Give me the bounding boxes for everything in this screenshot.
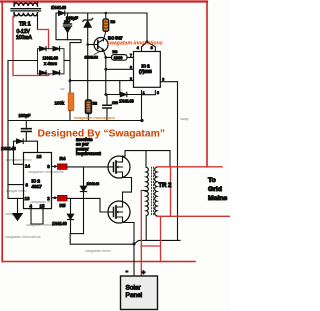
svg-text:1000: 1000 bbox=[114, 55, 123, 60]
diode bridge D-top-left bbox=[40, 47, 47, 51]
ground bbox=[17, 198, 19, 213]
potentiometer preset bbox=[85, 100, 92, 114]
wire red solar plus run bbox=[141, 245, 160, 247]
svg-text:6: 6 bbox=[130, 66, 132, 70]
svg-text:1N4148: 1N4148 bbox=[85, 55, 98, 59]
svg-text:100µF: 100µF bbox=[19, 113, 31, 118]
svg-text:swagatam: swagatam bbox=[5, 212, 21, 216]
svg-text:R3: R3 bbox=[113, 50, 118, 54]
wire 4017 pin8 to rail bbox=[8, 184, 24, 186]
wire red link verticals bbox=[170, 167, 172, 217]
wire TR2 primary bottom to bus bbox=[145, 217, 147, 241]
wire 555 bottom stub 5 bbox=[142, 90, 156, 94]
wire 100k bottom bbox=[69, 111, 71, 121]
node pin2 junction bbox=[54, 197, 57, 200]
wire Q1 collector bbox=[103, 31, 106, 41]
diode 1N4148 gate1 bbox=[83, 167, 85, 234]
wire grid-mains red tap right bbox=[206, 2, 208, 167]
IC2 4017 bbox=[24, 153, 52, 209]
IC2 7555 bbox=[134, 52, 161, 88]
svg-text:swagatam innovations: swagatam innovations bbox=[28, 170, 64, 174]
wire TR2 winding top drop bbox=[145, 151, 147, 167]
capacitor 103 bbox=[103, 95, 111, 121]
diode bridge D-bottom-left bbox=[40, 71, 47, 75]
svg-text:1N4148: 1N4148 bbox=[119, 99, 134, 104]
svg-text:R4: R4 bbox=[60, 156, 66, 161]
svg-text:16: 16 bbox=[37, 154, 42, 159]
resistor 100k bbox=[68, 93, 74, 111]
svg-text:3: 3 bbox=[162, 78, 164, 82]
svg-text:sw: sw bbox=[60, 87, 65, 91]
svg-text:14: 14 bbox=[25, 163, 30, 168]
wire ground bus y120 bbox=[8, 120, 142, 122]
wire R6 top bbox=[105, 13, 107, 19]
svg-text:Mains: Mains bbox=[208, 195, 227, 202]
wire vcc split pins 4 8 bbox=[142, 42, 156, 52]
node base junction bbox=[86, 43, 89, 46]
wire red TR2 secondary bottom to grid bbox=[157, 215, 230, 217]
wire 555 vcc from rail bbox=[146, 13, 148, 42]
wire red center tap to solar plus bbox=[140, 191, 142, 277]
wire emitter node to R3 to 555 pin7 bbox=[106, 56, 134, 58]
wire pot bottom bbox=[87, 114, 89, 121]
wire M2 source down to solar minus bbox=[123, 223, 135, 277]
transformer TR2 bbox=[146, 167, 157, 216]
capacitor 100uF top bbox=[64, 13, 72, 40]
wire red TR1 right to bridge top bbox=[38, 30, 49, 49]
svg-text:1N4148: 1N4148 bbox=[87, 182, 100, 186]
node solar minus crossing bbox=[133, 243, 136, 246]
svg-text:Grid: Grid bbox=[208, 186, 222, 193]
node timing junction bbox=[104, 93, 107, 96]
svg-text:swagatam innovations: swagatam innovations bbox=[5, 235, 41, 239]
wire 4017 pin13 to rail bbox=[8, 197, 24, 199]
svg-text:TR 2: TR 2 bbox=[159, 183, 173, 189]
svg-text:R6: R6 bbox=[111, 20, 116, 24]
node supply-555 junction bbox=[69, 79, 72, 82]
diode 1N4148 series top bbox=[59, 11, 65, 15]
diode bridge D-bottom-right bbox=[53, 71, 60, 75]
wire bridge right node bbox=[64, 60, 70, 62]
transistor Q1 BC547 bbox=[94, 38, 108, 52]
svg-text:4017: 4017 bbox=[32, 184, 43, 189]
node emitter bbox=[104, 56, 107, 59]
svg-text:IC 2: IC 2 bbox=[142, 64, 151, 69]
wire M1 drain up to TR2 top bbox=[123, 151, 171, 167]
diode bridge D-top-right bbox=[53, 47, 60, 51]
wire pin2 stub down to diode anode bbox=[119, 81, 121, 95]
wire 555 pin3 out right and down bbox=[160, 82, 177, 241]
wire zener chain down through pot bbox=[87, 45, 89, 101]
wire grid-mains red frame top bbox=[0, 0, 207, 2]
wire Q1 emitter to node bbox=[103, 50, 106, 58]
svg-text:+: + bbox=[142, 270, 146, 277]
diode bridge 1N4148 x 4nos box bbox=[38, 49, 65, 74]
wire 4017 pin2 out bbox=[52, 197, 58, 199]
svg-text:1: 1 bbox=[143, 91, 145, 95]
node pin3 junction bbox=[54, 165, 57, 168]
wire R4 to M1 gate bbox=[67, 166, 108, 168]
wire top rail dogleg to supply bbox=[56, 13, 81, 61]
svg-text:(7)555: (7)555 bbox=[139, 69, 152, 74]
svg-text:-: - bbox=[126, 267, 129, 276]
wire diode line to 555 bottom bbox=[106, 94, 142, 96]
svg-text:swagatam innovations: swagatam innovations bbox=[74, 116, 115, 120]
wire R5 to M2 gate bbox=[67, 198, 108, 212]
svg-text:R5: R5 bbox=[60, 203, 66, 208]
watermark texts faint bbox=[5, 87, 188, 253]
wire node down bbox=[105, 57, 107, 94]
wire Q1 base bbox=[88, 44, 98, 46]
svg-text:15: 15 bbox=[40, 203, 45, 208]
wire diode join U bbox=[71, 233, 84, 235]
svg-text:swagatam innov: swagatam innov bbox=[85, 249, 111, 253]
svg-text:swag: swag bbox=[180, 117, 188, 121]
wire bridge left node to ground rail bbox=[8, 60, 38, 62]
node bus right bbox=[140, 119, 143, 122]
wire red TR2 secondary top to grid bbox=[157, 166, 222, 168]
svg-text:1N4148: 1N4148 bbox=[51, 5, 67, 10]
svg-text:Solar: Solar bbox=[126, 285, 142, 292]
node 555 vcc bbox=[146, 40, 149, 43]
mosfet M2 bbox=[108, 201, 130, 223]
diode 1N4148 supply to 4017 bbox=[14, 141, 38, 152]
svg-text:100k: 100k bbox=[55, 100, 65, 105]
svg-text:IC 2: IC 2 bbox=[32, 178, 41, 183]
svg-text:swagatam innovations: swagatam innovations bbox=[26, 223, 62, 227]
wire 4017 pin3 out bbox=[52, 165, 58, 167]
mosfet M1 bbox=[108, 156, 130, 178]
wire 555 bottom stub down bbox=[141, 90, 143, 120]
svg-text:To: To bbox=[208, 177, 216, 184]
diode 1N4148 gate2 bbox=[70, 198, 72, 233]
svg-text:25V: 25V bbox=[64, 20, 71, 24]
svg-text:Designed By “Swagatam”: Designed By “Swagatam” bbox=[38, 129, 166, 140]
solar panel bbox=[121, 276, 158, 310]
diode 1N4148 mid bbox=[120, 92, 127, 96]
wire TR2 center tap bbox=[141, 190, 146, 192]
svg-text:103: 103 bbox=[112, 101, 118, 105]
node R6 rail bbox=[105, 12, 108, 15]
wire grid-mains red frame left bbox=[1, 2, 3, 262]
svg-text:2: 2 bbox=[130, 77, 132, 81]
resistor 1000 R3 bbox=[112, 55, 128, 61]
resistor R6 bbox=[103, 19, 109, 31]
wire TR1 left lead red to bridge bottom bbox=[13, 17, 49, 76]
wire grid-mains red frame bottom bbox=[2, 261, 195, 263]
wire +12 top rail bbox=[56, 12, 147, 14]
wire supply down to junction bbox=[69, 61, 71, 94]
svg-text:R2: R2 bbox=[93, 102, 97, 106]
wire diode bus down and right to 555 line bbox=[70, 234, 180, 245]
wire pin6 line bbox=[106, 68, 134, 70]
svg-text:swagatam innov: swagatam innov bbox=[6, 158, 32, 162]
svg-text:swagatam innovations: swagatam innovations bbox=[107, 41, 163, 47]
svg-text:100mA: 100mA bbox=[16, 35, 33, 41]
capacitor 100uF left bbox=[22, 121, 32, 142]
svg-text:Panel: Panel bbox=[126, 292, 143, 299]
wire M1 source to M2 drain bbox=[123, 178, 132, 202]
svg-text:5: 5 bbox=[157, 91, 159, 95]
svg-text:7: 7 bbox=[130, 54, 132, 58]
svg-text:TR 1: TR 1 bbox=[19, 22, 31, 28]
wire diode left down to pin14 bbox=[14, 141, 24, 164]
resistor R4 bbox=[58, 164, 68, 170]
wire pin2 line to IC2 555 bbox=[70, 80, 134, 82]
resistor R5 bbox=[58, 195, 68, 201]
wire ground rail left bbox=[7, 61, 9, 199]
svg-text:requirement: requirement bbox=[76, 151, 101, 156]
wire 4017 pins 4 15 loop bbox=[31, 209, 43, 224]
zener diode bbox=[83, 13, 93, 45]
svg-text:swagat innov: swagat innov bbox=[6, 189, 27, 193]
node pin6 bbox=[104, 68, 107, 71]
wire TR1 right lead bbox=[37, 17, 39, 30]
svg-text:swagatam in: swagatam in bbox=[30, 200, 50, 204]
svg-text:x 4nos: x 4nos bbox=[44, 61, 58, 66]
transformer TR1 bbox=[11, 2, 41, 17]
